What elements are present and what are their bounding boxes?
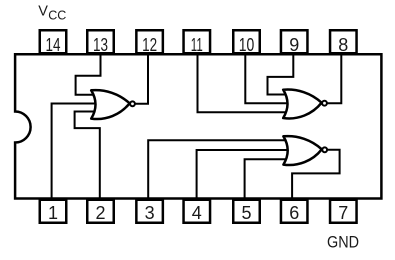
svg-text:12: 12 (142, 35, 157, 55)
pin 5 box (233, 200, 260, 223)
wire U1 output to pin12 (134, 54, 148, 104)
pin 13 box (87, 30, 114, 55)
svg-text:13: 13 (93, 35, 108, 55)
pin 12 box (136, 30, 163, 55)
svg-text:1: 1 (48, 203, 58, 223)
wire U3 output to pin6 (292, 150, 340, 199)
svg-text:CC: CC (48, 9, 66, 23)
svg-text:6: 6 (289, 203, 299, 223)
wire pin3 to U3 input A (148, 140, 293, 198)
svg-text:7: 7 (338, 203, 348, 223)
pin 7 box (330, 200, 357, 223)
NOR gate U3 (283, 136, 327, 165)
pin 1 box (40, 200, 67, 223)
pin 8 box (330, 30, 357, 55)
wire pin13 to U1 input A (76, 54, 101, 95)
pin 2 box (87, 200, 114, 223)
wire pin2 to U1 input C (75, 112, 100, 199)
pin 4 box (184, 200, 211, 223)
wire pin10 to U2 input B (245, 54, 292, 103)
wire U2 output to pin8 (326, 54, 341, 103)
pin 14 box (40, 30, 67, 55)
wire pin5 to U3 input C (245, 159, 293, 198)
pin 6 box (281, 200, 308, 223)
pin 9 box (281, 30, 308, 55)
svg-text:V: V (38, 3, 48, 19)
wire pin1 to U1 input B (52, 104, 99, 199)
svg-text:3: 3 (145, 203, 155, 223)
pin 10 box (233, 30, 260, 55)
VCC power label (38, 3, 66, 22)
wire pin9 to U2 input A (268, 54, 294, 95)
svg-text:4: 4 (192, 203, 202, 223)
svg-text:GND: GND (327, 234, 359, 252)
IC body DIP-14 outline with notch (15, 54, 381, 198)
pin 11 box (184, 30, 211, 55)
svg-text:9: 9 (289, 35, 299, 55)
wire pin11 to U2 input C (198, 54, 293, 112)
svg-text:5: 5 (241, 203, 251, 223)
pin 3 box (136, 200, 163, 223)
NOR gate U1 (91, 90, 135, 119)
svg-text:10: 10 (239, 35, 255, 55)
NOR gate U2 (283, 90, 327, 119)
svg-text:14: 14 (46, 35, 61, 55)
svg-text:11: 11 (191, 35, 203, 55)
svg-text:2: 2 (95, 203, 105, 223)
wire pin4 to U3 input B (197, 150, 293, 199)
svg-text:8: 8 (338, 35, 348, 55)
